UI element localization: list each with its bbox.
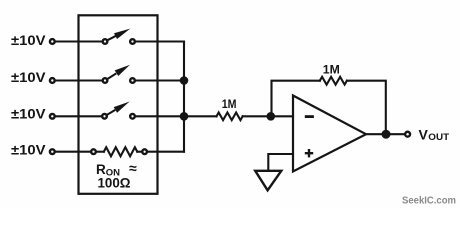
svg-text:±10V: ±10V [11, 106, 46, 122]
svg-text:OUT: OUT [428, 132, 449, 143]
svg-text:≈: ≈ [129, 160, 137, 176]
svg-text:V: V [419, 127, 429, 143]
svg-text:±10V: ±10V [11, 69, 46, 85]
svg-text:±10V: ±10V [11, 32, 46, 48]
svg-text:1M: 1M [323, 63, 340, 77]
svg-text:SeekIC.com: SeekIC.com [402, 196, 456, 207]
svg-text:±10V: ±10V [11, 141, 46, 157]
svg-text:100Ω: 100Ω [98, 176, 131, 191]
svg-text:1M: 1M [222, 97, 237, 111]
